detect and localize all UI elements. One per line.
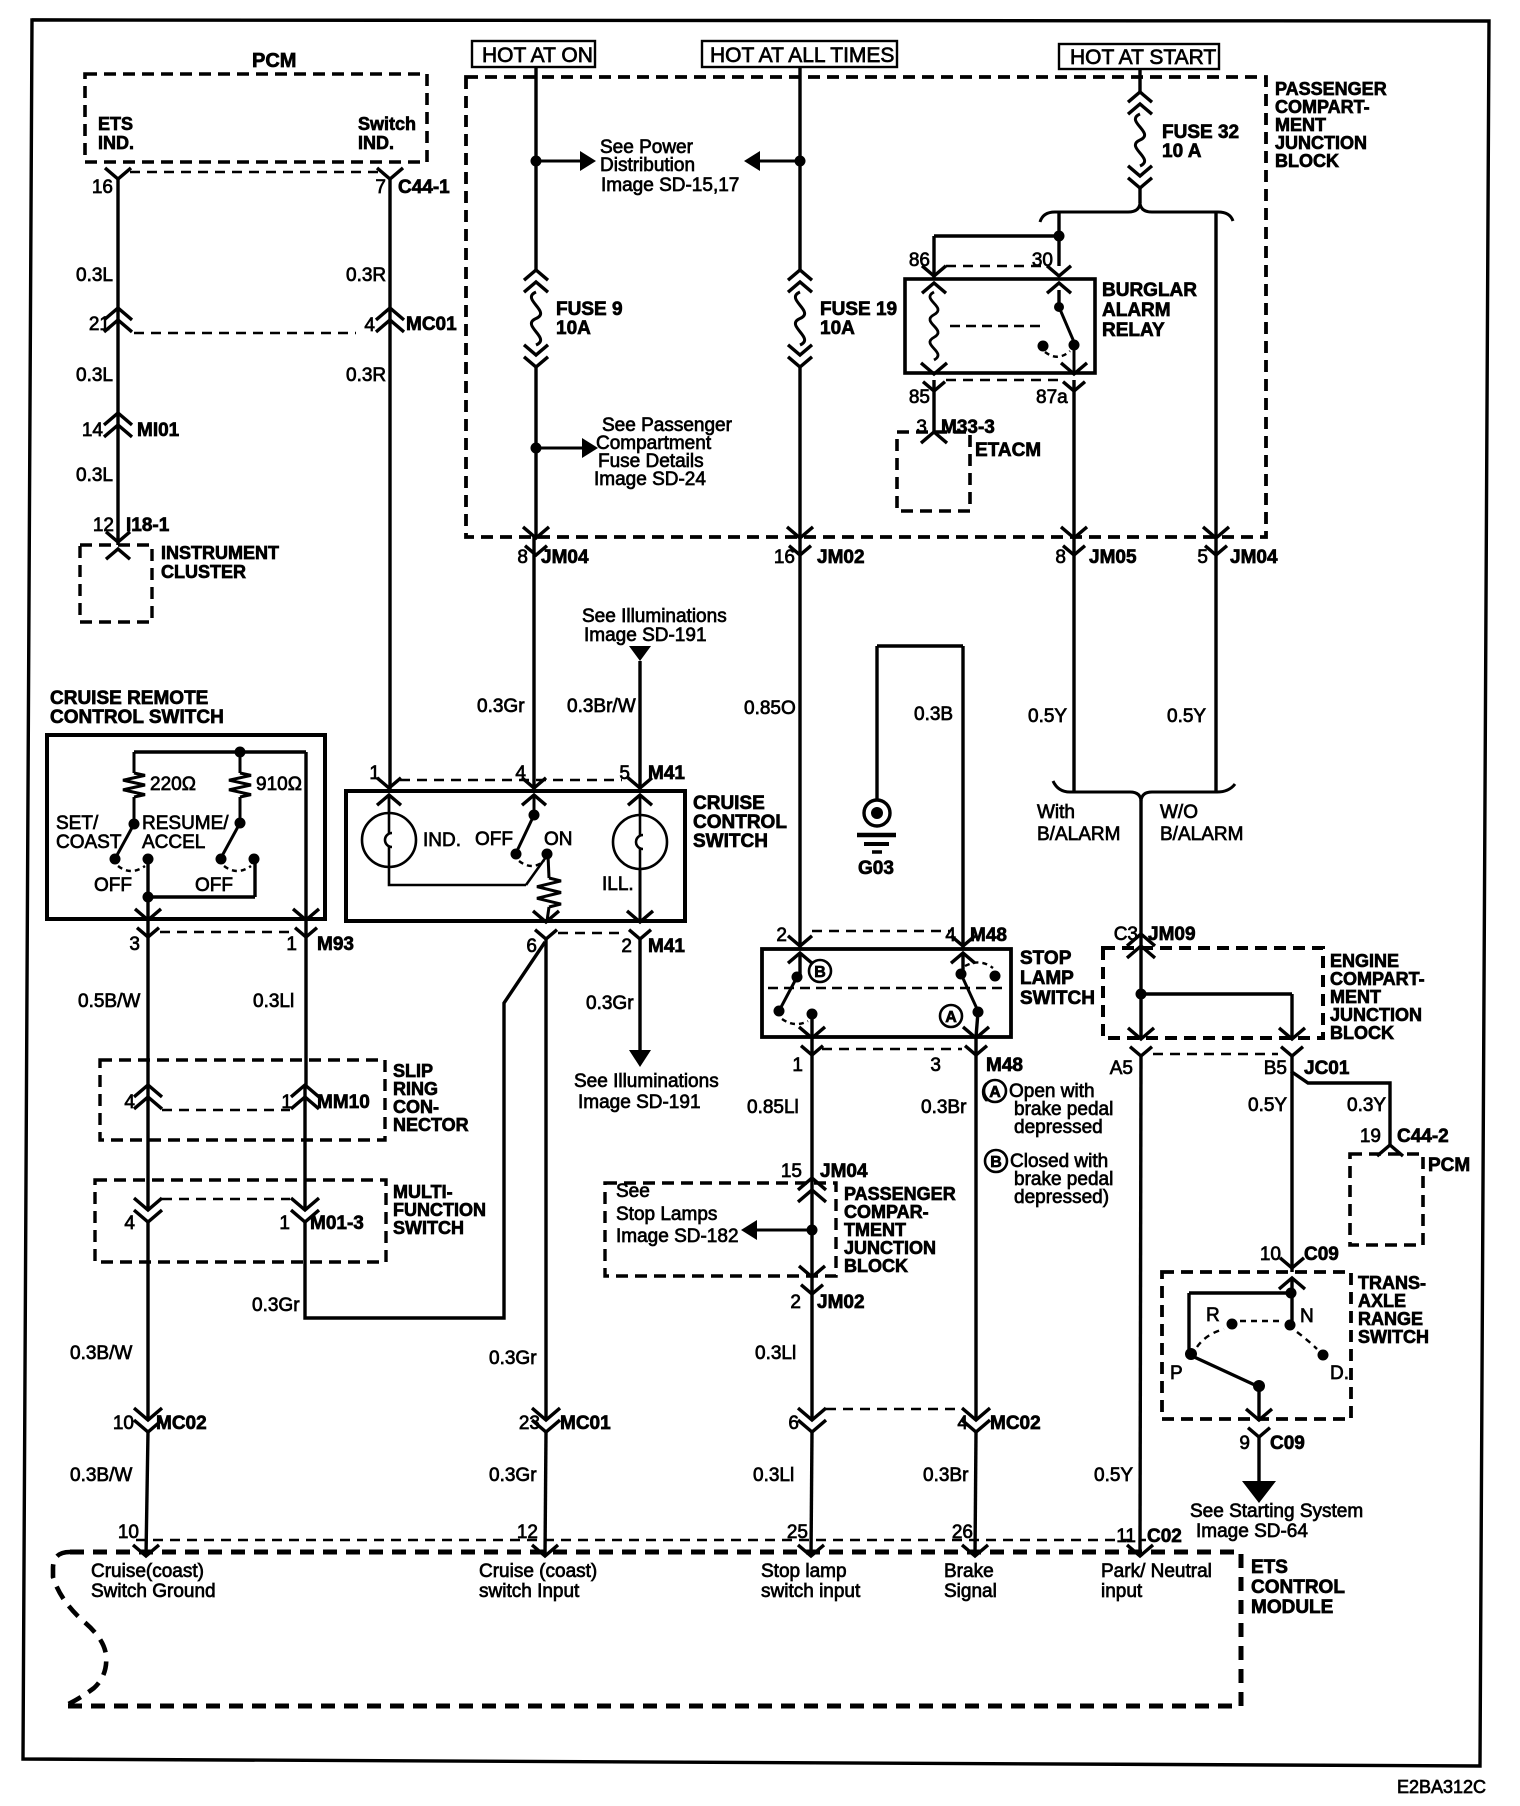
svg-text:See Illuminations: See Illuminations [574,1071,719,1092]
svg-text:HOT AT START: HOT AT START [1070,46,1216,69]
label N [1300,1306,1314,1327]
svg-text:Image SD-24: Image SD-24 [594,469,706,490]
label W/O B/ALARM [1160,802,1243,845]
wire 0.3Gr MC01 to ETS 12 [545,1432,546,1556]
svg-text:0.3Ll: 0.3Ll [253,991,294,1012]
label 0.3R (2) [346,365,386,386]
svg-text:9: 9 [1239,1433,1250,1454]
svg-text:C44-2: C44-2 [1397,1126,1449,1147]
svg-text:P: P [1170,1363,1183,1384]
wire MM10 to M01-3 left [146,1085,149,1210]
label 0.5Y (right) [1167,706,1206,727]
wire 0.5Y with alarm [1072,537,1075,792]
top rail [134,747,306,758]
svg-text:C09: C09 [1270,1433,1305,1454]
svg-text:0.3Gr: 0.3Gr [477,696,525,717]
connector M41 pin 1 [369,763,401,805]
note See Illuminations Image SD-191 (top) [582,606,727,646]
svg-text:B: B [814,964,826,981]
connector M48 pin 4 [945,925,1007,963]
svg-text:3: 3 [930,1055,941,1076]
label 0.85Ll [747,1097,799,1118]
label 0.3Ll M93 [253,991,294,1012]
svg-text:BLOCK: BLOCK [1275,151,1339,171]
circled A [940,1005,962,1027]
connector C09 pin 9 [1239,1409,1304,1454]
label 0.3Y [1347,1095,1386,1116]
svg-text:COMPART-: COMPART- [1275,97,1370,117]
module PCM (bottom right) dashed box [1350,1154,1423,1245]
label Park/ Neutral input [1101,1561,1212,1602]
svg-text:SWITCH: SWITCH [393,1218,464,1238]
svg-text:14: 14 [82,420,104,441]
node contact B top [792,972,803,983]
wire 0.3B/W M01-3 to MC02 [146,1222,149,1420]
svg-text:7: 7 [375,177,386,198]
module instrument cluster dashed box [80,545,152,622]
wire 0.3Ll JM02 to MC02-6 [810,1276,813,1420]
svg-text:STOP: STOP [1020,948,1072,969]
svg-text:0.3R: 0.3R [346,265,386,286]
svg-text:JC01: JC01 [1304,1058,1350,1079]
wire hot-at-start feed [1138,69,1141,92]
stop lamp switch A wire [961,953,964,972]
svg-text:depressed): depressed) [1014,1187,1109,1208]
connector M93 pin 3 [129,909,161,955]
svg-text:0.5Y: 0.5Y [1167,706,1206,727]
svg-text:1: 1 [792,1055,803,1076]
node contact A top [956,969,967,980]
svg-text:JM04: JM04 [541,547,589,568]
label PASSENGER COMPARTMENT JUNCTION BLOCK [1275,79,1387,171]
connector C09 pin 10 [1260,1244,1339,1289]
label 0.3B/W (1) [70,1343,132,1364]
svg-text:D.: D. [1330,1363,1349,1384]
svg-text:BURGLAR: BURGLAR [1102,280,1197,301]
wire split to relay 30 branch [1057,211,1060,266]
wire relay coil feed [934,236,1059,279]
connector link 86-30 [946,265,1042,267]
label MULTI-FUNCTION SWITCH [393,1182,486,1238]
svg-text:switch Input: switch Input [479,1581,580,1602]
wire range switch output [1257,1386,1260,1419]
svg-text:10 A: 10 A [1162,141,1202,162]
svg-text:JM04: JM04 [820,1161,868,1182]
connector M33-3 pin 3 [916,417,994,443]
svg-text:PCM: PCM [252,50,296,72]
svg-text:HOT AT ON: HOT AT ON [482,44,593,67]
svg-text:Signal: Signal [944,1581,997,1602]
node junction dot relay feed [1054,231,1065,242]
svg-text:CLUSTER: CLUSTER [161,562,246,582]
connector M93 pin 1 [286,909,354,955]
svg-text:TMENT: TMENT [844,1220,906,1240]
svg-text:Cruise(coast): Cruise(coast) [91,1561,204,1582]
connector link M41 top [400,779,622,781]
range switch dashed arc R-N [1240,1320,1282,1322]
svg-text:MENT: MENT [1275,115,1326,135]
label INSTRUMENT CLUSTER [161,543,279,582]
svg-text:0.3Y: 0.3Y [1347,1095,1386,1116]
svg-text:MODULE: MODULE [1251,1597,1333,1618]
svg-text:16: 16 [774,547,795,568]
svg-text:MC02: MC02 [156,1413,207,1434]
resistor cruise switch [537,855,561,921]
connector link MM10 [162,1109,290,1111]
wire B5 branch to PCM [1292,1055,1390,1145]
connector M01-3 pin 1 [279,1198,363,1234]
wire 0.3R MC01 to M41 pin1 [388,320,391,791]
note See Starting System Image SD-64 [1190,1501,1363,1542]
svg-text:FUSE 9: FUSE 9 [556,299,623,320]
svg-text:JUNCTION: JUNCTION [844,1238,936,1258]
label D. [1330,1363,1349,1384]
label 220 ohm [150,774,196,795]
connector MI01 pin 14 [82,413,180,441]
connector C44-2 pin 19 [1360,1126,1449,1156]
wire 0.3Ll M93-1 down [304,919,307,1085]
passenger compartment junction block dashed box [466,77,1266,537]
wire ILL low side [639,869,642,921]
ground G03 [857,800,896,852]
node junction dot power distribution 2 [795,156,806,167]
connector MC02 pin 10 [113,1408,207,1434]
label box HOT AT ON [472,41,595,67]
connector C44-1 pin 7 [375,168,450,198]
wire 0.3Ll MC02 to ETS 25 [811,1432,812,1556]
node relay contact 87a [1069,340,1080,351]
label SET/COAST [56,813,122,853]
connector MC02 pin 6 [788,1408,826,1434]
node set/coast off contact [143,854,154,865]
note See Illuminations Image SD-191 (bottom) [574,1071,719,1113]
svg-text:10A: 10A [556,318,591,339]
wire hot-at-all-times feed [798,67,801,270]
merge bracket [1053,781,1235,802]
svg-text:LAMP: LAMP [1020,968,1074,989]
label SLIP RING CONNECTOR [393,1061,469,1135]
wire 0.3B/W MC02 to ETS 10 [146,1432,148,1556]
label FUSE 9 10A [556,299,623,339]
wire range switch to P [1189,1293,1291,1350]
ETS control module dashed box [53,1552,1241,1706]
node junction dot ECJB [1136,989,1147,1000]
label ETACM [975,440,1041,461]
node contact N [1285,1320,1296,1331]
wire 0.5B/W M93-3 down [146,919,149,1085]
svg-text:Image SD-64: Image SD-64 [1196,1521,1308,1542]
label PCM [252,50,296,72]
svg-text:OFF: OFF [475,829,513,850]
fuse FUSE 32 10A [1128,92,1152,188]
label Switch IND. [358,114,416,153]
label OFF right [195,875,233,896]
node junction dot stop lamps [807,1225,818,1236]
node set/coast contact [110,854,121,865]
svg-text:BLOCK: BLOCK [844,1256,908,1276]
trans-axle range switch dashed box [1162,1272,1351,1419]
svg-text:0.3L: 0.3L [76,365,113,386]
svg-text:4: 4 [364,315,375,336]
label OFF left [94,875,132,896]
connector JM05 pin 8 [1055,527,1137,568]
note (A) open with brake pedal depressed [981,1080,1113,1138]
label 0.3B [914,704,953,725]
label 0.3Br/W [567,696,636,717]
node on/off pivot [529,810,540,821]
label 0.3L (1) [76,265,113,286]
connector link M41 bottom [558,932,624,934]
svg-text:ACCEL: ACCEL [142,832,205,853]
svg-text:BLOCK: BLOCK [1330,1023,1394,1043]
svg-text:3: 3 [916,417,927,438]
svg-text:JUNCTION: JUNCTION [1275,133,1367,153]
note See Passenger Compartment Fuse Details Image SD-24 [594,415,733,490]
set/coast throw arc [118,866,145,871]
svg-text:C3: C3 [1114,924,1138,945]
svg-text:JM02: JM02 [817,1292,865,1313]
svg-text:MULTI-: MULTI- [393,1182,453,1202]
connector JM04 pin 15 [781,1161,868,1202]
resume/accel blade [222,823,240,856]
svg-text:0.3Ll: 0.3Ll [755,1343,796,1364]
svg-text:OFF: OFF [94,875,132,896]
svg-text:FUSE 19: FUSE 19 [820,299,897,320]
svg-text:FUSE 32: FUSE 32 [1162,122,1239,143]
svg-text:M41: M41 [648,936,685,957]
svg-text:TRANS-: TRANS- [1358,1273,1426,1293]
passenger compartment junction block (small) label [844,1184,956,1276]
svg-text:0.3Br: 0.3Br [923,1465,969,1486]
node relay contact aux [1038,341,1049,352]
wire 0.5Y B5 to C09 [1290,1072,1293,1272]
label 0.3L (2) [76,365,113,386]
svg-text:0.85Ll: 0.85Ll [747,1097,799,1118]
svg-text:ENGINE: ENGINE [1330,951,1399,971]
connector link MC02 [826,1408,960,1410]
svg-text:CONTROL: CONTROL [1251,1577,1345,1598]
svg-text:4: 4 [124,1213,135,1234]
connector M41 pin 6 [526,911,559,957]
svg-text:C44-1: C44-1 [398,177,450,198]
svg-text:Stop lamp: Stop lamp [761,1561,847,1582]
svg-text:Stop Lamps: Stop Lamps [616,1204,717,1225]
cruise control switch box [346,791,685,921]
connector MC01 link [134,332,356,334]
svg-text:CONTROL SWITCH: CONTROL SWITCH [50,707,224,728]
label E2BA312C [1397,1777,1486,1797]
connector JM04 pin 5 [1197,527,1278,568]
stop lamp B throw arc [782,1019,808,1024]
label ON [544,829,573,850]
label With B/ALARM [1037,802,1120,845]
relay terminal 87a [1061,345,1087,391]
label ETS CONTROL MODULE [1251,1557,1345,1618]
wire 0.3R PCM7 to MC01 [388,179,391,320]
connector M41 pin 5 [619,763,685,805]
svg-text:B/ALARM: B/ALARM [1037,824,1120,845]
svg-text:21: 21 [89,314,110,335]
svg-text:E2BA312C: E2BA312C [1397,1777,1486,1797]
stop lamp switch box [762,949,1011,1037]
svg-text:0.3L: 0.3L [76,465,113,486]
svg-text:B/ALARM: B/ALARM [1160,824,1243,845]
svg-text:A: A [989,1084,1001,1101]
multi-function switch dashed box [95,1180,386,1262]
resistor 220 ohm [123,752,145,820]
label 0.3Ll (1) [755,1343,796,1364]
svg-text:4: 4 [945,925,956,946]
stop lamp switch A blade [961,974,978,1011]
svg-text:11: 11 [1116,1526,1136,1547]
connector JM04 pin 8 [517,527,589,568]
svg-text:Cruise (coast): Cruise (coast) [479,1561,597,1582]
svg-text:COMPAR-: COMPAR- [844,1202,929,1222]
svg-text:RELAY: RELAY [1102,320,1165,341]
svg-text:M48: M48 [970,925,1007,946]
label Cruise (coast) switch Input [479,1561,597,1602]
svg-text:HOT AT ALL TIMES: HOT AT ALL TIMES [710,44,894,67]
label ENGINE COMPARTMENT JUNCTION BLOCK [1330,951,1425,1043]
connector M41 pin 2 [621,911,685,957]
label R [1206,1305,1220,1326]
node contact B lower [774,1006,785,1017]
label 0.85O [744,698,796,719]
stop lamp switch B wire [798,953,801,975]
node resume/accel off contact [249,854,260,865]
label 0.3R (1) [346,265,386,286]
svg-text:Switch: Switch [358,114,416,134]
wire relay 87a to JM05 [1072,380,1075,537]
svg-text:With: With [1037,802,1075,823]
svg-text:PASSENGER: PASSENGER [1275,79,1387,99]
label IND. [423,830,461,851]
svg-text:0.3B/W: 0.3B/W [70,1343,132,1364]
label FUSE 19 10A [820,299,897,339]
svg-text:2: 2 [621,936,632,957]
wire merged to JM09 [1139,800,1142,948]
svg-text:6: 6 [788,1413,799,1434]
module ETACM dashed box [897,432,970,511]
svg-text:23: 23 [519,1413,540,1434]
label 0.3Gr M01-3 [252,1295,300,1316]
svg-text:0.3Gr: 0.3Gr [586,993,634,1014]
relay switch blade [1059,307,1074,342]
label 0.3Gr pin6 (2) [489,1465,537,1486]
node contact A lower [973,1007,984,1018]
svg-text:M93: M93 [317,934,354,955]
wire 0.5Y without alarm [1214,537,1217,792]
arrow see power distribution 2 [744,151,800,171]
svg-text:AXLE: AXLE [1358,1291,1406,1311]
svg-text:R: R [1206,1305,1220,1326]
label ETS IND. [98,114,134,153]
lamp IND [362,813,416,867]
svg-text:INSTRUMENT: INSTRUMENT [161,543,279,563]
svg-text:Distribution: Distribution [600,155,695,176]
svg-text:CRUISE REMOTE: CRUISE REMOTE [50,688,208,709]
svg-text:SWITCH: SWITCH [693,831,768,852]
label 0.3Br (2) [923,1465,969,1486]
svg-text:12: 12 [93,515,114,536]
svg-text:IND.: IND. [358,133,394,153]
label relay pin 30 [1032,250,1053,271]
lamp ILL [613,815,667,869]
svg-text:3: 3 [129,934,140,955]
engine compartment junction block dashed box [1103,948,1323,1038]
svg-text:C09: C09 [1304,1244,1339,1265]
svg-text:B: B [990,1154,1002,1171]
wire hot-at-on feed [534,67,537,270]
svg-text:B5: B5 [1264,1058,1287,1079]
label relay pin 86 [909,250,930,271]
node junction dot power distribution [531,156,542,167]
connector M41 pin 4 [515,763,546,805]
wire 0.3L MC01 to MI01 [116,320,119,425]
connector M48 pin 3 [930,1027,1023,1076]
svg-text:0.3B: 0.3B [914,704,953,725]
svg-text:0.3Br/W: 0.3Br/W [567,696,636,717]
label 0.3L (3) [76,465,113,486]
svg-text:PCM: PCM [1428,1155,1470,1176]
range switch dashed arc N-D [1297,1332,1317,1349]
svg-text:IND.: IND. [98,133,134,153]
svg-text:0.3Br: 0.3Br [921,1097,967,1118]
connector JM02 pin 2 [790,1266,864,1313]
svg-text:0.5Y: 0.5Y [1028,706,1067,727]
fuse FUSE 19 10A [788,270,812,367]
label 0.3Ll (2) [753,1465,794,1486]
connector C44-1 pin 16 [92,168,131,198]
node set/coast pivot [129,819,140,830]
arrow see stop lamps [741,1220,812,1240]
wire contact to pin3 [976,1012,978,1037]
wire 0.3Gr pin6 to MC01-23 [544,938,547,1420]
svg-text:0.3Ll: 0.3Ll [753,1465,794,1486]
svg-text:0.3Gr: 0.3Gr [489,1465,537,1486]
wire 0.3Gr JM04 to M41 pin4 [532,537,535,791]
svg-text:JM02: JM02 [817,547,865,568]
wire fuse19 to JM02 [798,367,801,537]
label 0.5Y A5 [1094,1465,1133,1486]
svg-text:SET/: SET/ [56,813,99,834]
svg-text:W/O: W/O [1160,802,1198,823]
svg-text:Image SD-191: Image SD-191 [578,1092,701,1113]
svg-text:ETACM: ETACM [975,440,1041,461]
svg-text:SWITCH: SWITCH [1020,988,1095,1009]
range switch dashed arc P-R [1197,1329,1224,1347]
svg-text:SLIP: SLIP [393,1061,433,1081]
svg-text:Park/ Neutral: Park/ Neutral [1101,1561,1212,1582]
svg-text:12: 12 [517,1522,538,1543]
svg-text:RESUME/: RESUME/ [142,813,229,834]
wire 0.85Ll pin1 to JM04 [810,1037,813,1184]
node junction dot range switch [1286,1288,1297,1299]
wire IND feed [388,795,391,813]
split bracket [1040,202,1233,222]
connector JM02 pin 16 [774,527,865,568]
svg-text:Brake: Brake [944,1561,994,1582]
off tie wire [143,859,256,920]
node contact P [1185,1348,1197,1360]
wire 0.3Gr M01-3 route [305,942,545,1318]
right rail to pin1 [304,752,307,920]
svg-text:4: 4 [957,1413,968,1434]
svg-text:COMPART-: COMPART- [1330,969,1425,989]
node contact A off [990,971,1001,982]
svg-text:8: 8 [517,547,528,568]
svg-text:0.5Y: 0.5Y [1248,1095,1287,1116]
